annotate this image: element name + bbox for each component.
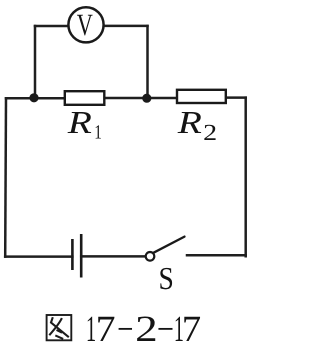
- svg-text:–: –: [118, 306, 132, 344]
- resistor R2 box: [177, 90, 226, 103]
- wire switch to right corner segment: [187, 254, 246, 257]
- battery BT1 short plate: [71, 239, 74, 270]
- wire main bus right segment: [226, 96, 246, 99]
- resistor R1 box: [65, 91, 105, 105]
- wire top-right horizontal (voltmeter branch): [105, 25, 148, 28]
- wire main bus left segment: [6, 97, 65, 100]
- wire top-left horizontal (voltmeter branch): [35, 25, 68, 28]
- svg-text:2: 2: [203, 120, 217, 145]
- svg-text:1: 1: [94, 122, 102, 144]
- svg-text:7: 7: [96, 309, 116, 344]
- wire right outer vertical: [244, 98, 247, 257]
- battery BT1 long plate: [80, 234, 83, 278]
- svg-text:R: R: [67, 104, 93, 140]
- wire left vertical voltmeter lead: [34, 26, 37, 98]
- svg-text:–: –: [158, 306, 173, 344]
- voltmeter U1 circle: [68, 7, 103, 42]
- caption hanzi TU (figure) drawn as strokes: [47, 315, 72, 340]
- node junction dot left: [29, 93, 38, 102]
- svg-text:2: 2: [135, 309, 158, 344]
- wire main bus middle segment: [104, 97, 177, 100]
- svg-text:1: 1: [86, 309, 96, 344]
- svg-text:7: 7: [182, 309, 201, 344]
- node junction dot right: [142, 94, 151, 103]
- wire left outer vertical: [4, 98, 7, 256]
- switch S lever: [154, 237, 185, 253]
- wire right vertical voltmeter lead: [146, 26, 149, 98]
- svg-text:R: R: [177, 104, 203, 140]
- wire bottom-left segment to battery: [5, 255, 72, 258]
- svg-text:S: S: [159, 260, 174, 296]
- switch S pivot circle: [146, 252, 155, 261]
- svg-text:V: V: [77, 7, 94, 42]
- wire battery to switch segment: [81, 255, 145, 258]
